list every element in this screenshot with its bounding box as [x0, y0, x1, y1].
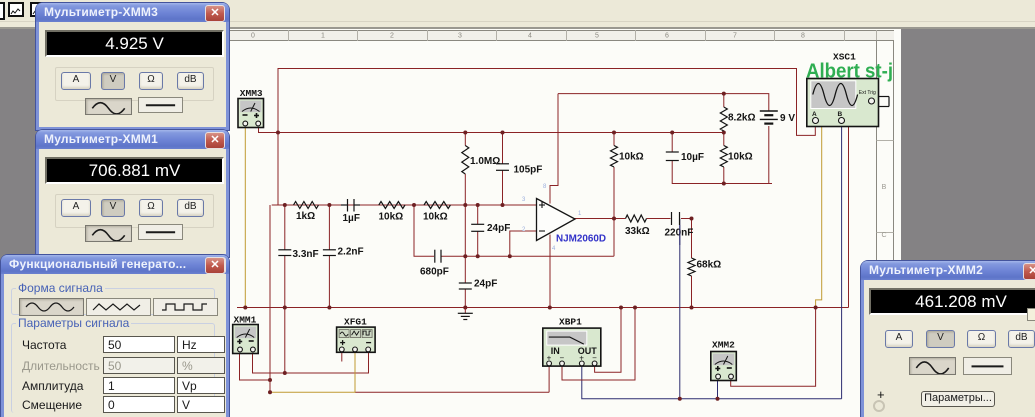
wire: 3.3nF column	[284, 205, 286, 250]
wire: navy output bus	[582, 364, 842, 399]
junction	[463, 254, 467, 258]
wire: opamp vminus stub	[549, 235, 551, 308]
svg-text:XBP1: XBP1	[559, 317, 582, 328]
junction	[327, 306, 331, 310]
wire: XMM1 minus row	[253, 351, 369, 373]
junction	[243, 306, 247, 310]
wire: input branch vertical	[269, 205, 271, 392]
junction	[722, 92, 726, 96]
junction	[283, 371, 287, 375]
resistor R 8.2kOhm	[720, 107, 727, 131]
sheet	[228, 29, 901, 417]
wire: mid bias bus	[259, 125, 724, 133]
svg-text:B: B	[838, 111, 843, 118]
dialog window function generator	[1, 255, 229, 417]
svg-text:24pF: 24pF	[487, 223, 510, 234]
svg-text:XMM3: XMM3	[240, 88, 263, 99]
wire: xmm2 plus navy	[717, 377, 719, 399]
wire: 2.2nF column	[328, 205, 330, 250]
junction	[463, 306, 467, 310]
junction	[690, 217, 694, 221]
wire: navy output column overdraw	[679, 225, 681, 245]
wire: fb column x614	[613, 133, 615, 146]
svg-text:1.0MΩ: 1.0MΩ	[470, 156, 500, 167]
junction	[327, 203, 331, 207]
junction	[716, 397, 720, 401]
junction	[814, 306, 818, 310]
dialog window XMM2	[861, 261, 1035, 417]
wire: signal row	[272, 204, 537, 206]
junction	[268, 390, 272, 394]
svg-text:2: 2	[522, 227, 526, 233]
junction	[283, 203, 287, 207]
resistor R 68kOhm	[688, 258, 695, 276]
wire: XMM3 minus yellow	[244, 125, 246, 308]
svg-text:10µF: 10µF	[681, 152, 704, 163]
svg-text:680pF: 680pF	[420, 267, 449, 278]
wire: battery column	[768, 126, 770, 184]
desktop gray right of sheet	[901, 31, 1035, 417]
wire: opamp minus input	[510, 231, 537, 256]
junction	[268, 378, 272, 382]
junction	[619, 306, 623, 310]
svg-text:XMM1: XMM1	[234, 315, 257, 326]
ground symbol	[464, 308, 466, 314]
svg-text:Ext Trig: Ext Trig	[859, 90, 876, 96]
oscilloscope XSC1	[807, 79, 879, 127]
junction	[612, 217, 616, 221]
svg-text:8.2kΩ: 8.2kΩ	[728, 113, 755, 124]
wire: main mid column x465	[464, 133, 466, 146]
wire: output row	[575, 218, 626, 220]
svg-text:4: 4	[552, 246, 556, 252]
wire: xbp1 out minus	[595, 308, 621, 373]
junction	[548, 306, 552, 310]
capacitor 105pF	[496, 163, 509, 165]
svg-text:3: 3	[522, 197, 526, 203]
svg-text:XMM2: XMM2	[712, 340, 735, 351]
opamp U1 NJM2060D	[537, 199, 576, 241]
wire: xbp1 in plus row	[355, 391, 549, 393]
svg-text:2.2nF: 2.2nF	[338, 247, 364, 258]
capacitor 24pF second	[459, 282, 472, 284]
svg-text:NJM2060D: NJM2060D	[556, 233, 606, 245]
wire: xbp1 in minus	[562, 308, 635, 381]
wire: ground bus	[237, 307, 849, 309]
junction	[722, 131, 726, 135]
resistor R 33kOhm	[626, 215, 647, 222]
wire: 680pF loop	[414, 205, 434, 256]
wire: top input rail	[278, 69, 815, 206]
junction	[612, 131, 616, 135]
junction	[276, 131, 280, 135]
junction	[501, 131, 505, 135]
toolbar strip	[0, 0, 1035, 27]
svg-text:10kΩ: 10kΩ	[423, 212, 448, 223]
svg-text:10kΩ: 10kΩ	[619, 152, 644, 163]
svg-text:33kΩ: 33kΩ	[625, 226, 650, 237]
toolbar icons	[0, 2, 5, 20]
resistor R 10kOhm first	[379, 202, 405, 209]
wire: scope B minus column	[848, 124, 850, 308]
svg-text:A: A	[812, 111, 817, 118]
junction	[678, 397, 682, 401]
multimeter XMM3	[238, 99, 264, 128]
svg-text:1kΩ: 1kΩ	[296, 211, 315, 222]
junction	[463, 131, 467, 135]
svg-text:220nF: 220nF	[665, 228, 694, 239]
capacitor 680pF	[434, 250, 436, 263]
capacitor 3.3nF	[278, 249, 291, 251]
svg-text:10kΩ: 10kΩ	[728, 152, 753, 163]
svg-text:10kΩ: 10kΩ	[379, 212, 404, 223]
svg-text:105pF: 105pF	[514, 165, 543, 176]
capacitor 2.2nF	[323, 249, 336, 251]
multimeter XMM1	[233, 325, 259, 354]
capacitor 1uF	[347, 199, 349, 212]
multimeter XMM2	[711, 352, 737, 381]
junction	[283, 306, 287, 310]
function generator XFG1	[337, 327, 376, 352]
wire: XMM1 plus	[240, 352, 271, 380]
junction	[463, 203, 467, 207]
dialog window &#1052;&#1091;&#1083;&#1100;&#1090;&#1080;&#1084;&#1077;&#1090;&#1088;-XMM1	[36, 130, 229, 257]
wire: 68k column	[691, 219, 693, 259]
wire: yellow fg common row	[270, 352, 355, 392]
wire: xfg1 plus stub	[341, 352, 343, 362]
junction	[690, 306, 694, 310]
wire: divider column	[723, 94, 725, 107]
resistor R 1.0MOhm	[462, 146, 469, 175]
svg-text:Albert st-j: Albert st-j	[806, 61, 893, 83]
resistor R 10kOhm divider	[720, 146, 727, 168]
svg-text:1µF: 1µF	[343, 213, 360, 224]
scope ext stubs	[879, 96, 890, 98]
top zone band	[228, 30, 894, 41]
junction	[476, 203, 480, 207]
wire: xmm2 minus leg	[731, 308, 816, 387]
resistor R 1kOhm	[294, 202, 319, 209]
wire: scope B plus navy	[841, 124, 843, 399]
junction	[508, 254, 512, 258]
wire: 105pF column	[502, 133, 504, 164]
svg-text:9 V: 9 V	[780, 113, 795, 124]
junction	[722, 182, 726, 186]
resistor R 10kOhm second	[424, 202, 450, 209]
wire: opamp vplus stub	[550, 94, 558, 204]
capacitor 24pF first	[471, 223, 484, 225]
svg-text:3.3nF: 3.3nF	[293, 249, 319, 260]
battery V1 9V	[760, 110, 778, 112]
junction	[412, 203, 416, 207]
wire: navy output column	[679, 219, 681, 399]
junction	[670, 131, 674, 135]
dialog window &#1052;&#1091;&#1083;&#1100;&#1090;&#1080;&#1084;&#1077;&#1090;&#1088;-XMM3	[36, 3, 229, 130]
svg-text:8: 8	[543, 184, 547, 190]
bode plotter XBP1	[543, 328, 601, 366]
junction	[501, 203, 505, 207]
svg-text:1: 1	[578, 211, 582, 217]
wire: 10uF column	[671, 133, 673, 153]
svg-text:IN: IN	[551, 346, 560, 356]
resistor R 10kOhm fb	[611, 146, 618, 168]
svg-text:XFG1: XFG1	[344, 317, 367, 328]
wire: v+ supply row	[558, 94, 769, 111]
svg-text:68kΩ: 68kΩ	[697, 260, 722, 271]
junction	[633, 306, 637, 310]
right zone column	[876, 40, 901, 417]
wire: scope A minus yellow	[816, 124, 822, 308]
capacitor 220nF	[671, 212, 673, 225]
capacitor 10uF	[666, 151, 679, 153]
svg-text:24pF: 24pF	[474, 279, 497, 290]
wire: 24pF no1 column	[477, 205, 479, 224]
junction	[476, 254, 480, 258]
